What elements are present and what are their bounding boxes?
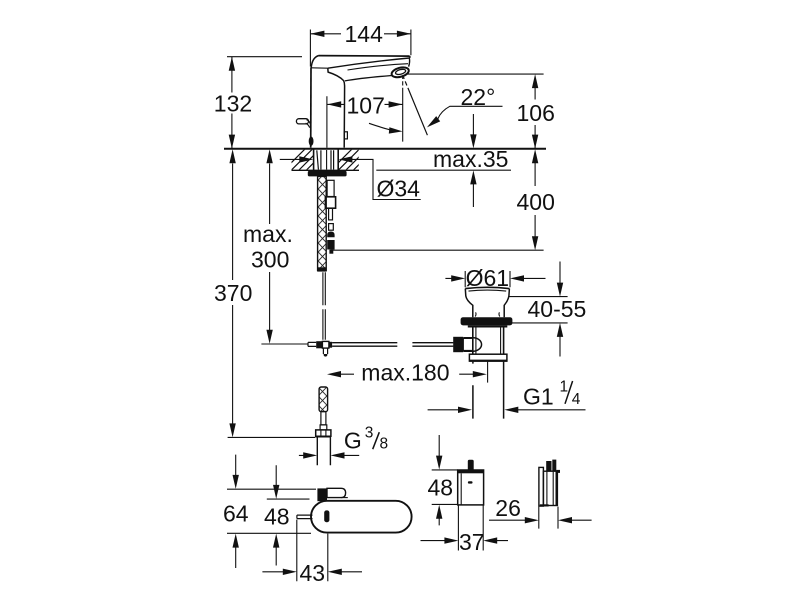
22 degree arc arrow [369, 123, 392, 130]
faucet spout top-left corner [311, 56, 318, 68]
svg-text:400: 400 [517, 189, 555, 215]
front view inner line [460, 473, 462, 505]
tee fitting body [322, 341, 329, 348]
cable below hose [323, 272, 325, 340]
svg-text:Ø61: Ø61 [466, 265, 509, 291]
label 22 degrees [427, 84, 503, 128]
waste gasket [461, 317, 513, 325]
dimension 144 [310, 21, 411, 67]
sensor cable plug tip [329, 250, 333, 254]
tee fitting bottom stub [323, 348, 327, 354]
deck hatching left [284, 149, 328, 170]
supply hose upper braided [318, 176, 327, 270]
svg-text:Ø34: Ø34 [377, 175, 421, 201]
dimension 106 [406, 74, 554, 149]
shank inner lines [317, 150, 334, 169]
dimension 64 [223, 455, 316, 568]
svg-text:1: 1 [560, 379, 569, 396]
waste inlet black block [453, 337, 463, 352]
svg-text:37: 37 [459, 529, 485, 555]
control box side view body [311, 501, 412, 533]
svg-text:4: 4 [572, 391, 581, 408]
control box rear view left panel [539, 467, 544, 506]
22 degree angled line [403, 77, 427, 135]
faucet spout tip line [328, 58, 410, 68]
shank right edge [337, 150, 339, 171]
aerator inner [395, 68, 406, 75]
front view nub [468, 460, 474, 470]
dimension 132 [214, 57, 302, 149]
faucet centerline extension [326, 96, 328, 169]
waste tailpipe [473, 362, 504, 419]
dimension 48 front view [428, 435, 458, 525]
dimension 37 [421, 505, 509, 555]
dimension max.180 [327, 359, 487, 385]
drain rod segment 1 [332, 343, 397, 347]
control box inlet stub [297, 515, 313, 519]
temperature lever neck [306, 120, 311, 128]
svg-text:G: G [344, 427, 362, 453]
waste inlet elbow [463, 338, 481, 352]
lower hose step [320, 425, 327, 430]
G3/8 pipe [317, 437, 330, 465]
control box side view tab white [327, 488, 346, 497]
dimension max.35 [376, 114, 511, 207]
sensor window [344, 132, 347, 139]
drain rod segment 2 [412, 343, 453, 347]
deck underside left [292, 169, 360, 171]
svg-text:max.180: max.180 [361, 359, 449, 385]
waste body [473, 328, 504, 355]
faucet spout underside [345, 76, 392, 81]
sensor cable narrow rod [329, 208, 333, 220]
waste inlet connector [463, 338, 472, 350]
22 degree plumb dashed line [402, 77, 404, 142]
dimension 48 side view [264, 465, 310, 565]
dimension 400 [330, 149, 554, 250]
svg-text:144: 144 [345, 21, 384, 47]
faucet front-top edge [311, 67, 328, 69]
tee fitting left block [316, 341, 322, 348]
deck datum line [224, 148, 546, 150]
dimension diameter 34 [280, 156, 421, 201]
svg-text:48: 48 [428, 475, 454, 501]
faucet spout top edge [319, 55, 410, 58]
sensor cable plug [327, 232, 334, 238]
lower hose neck [321, 412, 326, 425]
faucet spout crease line [348, 64, 409, 70]
pop-up waste flange top [465, 287, 509, 288]
sensor cable stub [329, 224, 334, 231]
svg-text:64: 64 [223, 501, 249, 527]
dimension max.300 [243, 149, 308, 344]
rear view inner lines [547, 471, 553, 505]
faucet body left edge [310, 68, 312, 148]
sensor cable rod [327, 180, 334, 196]
shank left edge [313, 150, 315, 171]
dimension 26 [489, 495, 592, 528]
supply hose end cap [317, 267, 326, 271]
svg-text:43: 43 [300, 560, 326, 586]
aerator outer [391, 66, 410, 79]
rear view connector black [546, 461, 551, 472]
dimension 107 [327, 92, 402, 118]
svg-text:8: 8 [380, 435, 389, 452]
dimension 43 [262, 520, 362, 586]
temperature lever handle [296, 119, 308, 124]
pop-up waste flange sides [465, 289, 473, 318]
svg-text:370: 370 [214, 280, 252, 306]
faucet spout tip end [409, 56, 410, 67]
label G3/8 [299, 425, 388, 459]
svg-text:max.: max. [243, 221, 293, 247]
flange thread relief ticks [475, 312, 500, 316]
svg-text:107: 107 [347, 92, 385, 118]
dimension 40-55 [509, 262, 586, 357]
control box side view tab black [317, 488, 327, 501]
control box front view body [458, 470, 484, 505]
G3/8 nut [316, 430, 331, 436]
tee fitting right block [329, 342, 332, 348]
waste lower nut [469, 354, 507, 361]
dimension diameter 61 [445, 265, 545, 291]
front view lid [458, 470, 484, 473]
label G1 1/4 [428, 379, 586, 414]
svg-text:G1: G1 [523, 383, 554, 409]
svg-text:132: 132 [214, 91, 252, 117]
faucet step and body right edge [328, 68, 345, 147]
front view dash [468, 481, 473, 483]
rear view bottom band [540, 504, 549, 506]
sensor cable block [325, 197, 335, 208]
svg-text:3: 3 [365, 425, 374, 442]
deck hatching right [331, 149, 375, 170]
svg-text:106: 106 [517, 100, 555, 126]
svg-text:48: 48 [264, 504, 290, 530]
rear view main body [543, 471, 557, 505]
svg-text:40-55: 40-55 [528, 296, 587, 322]
temperature lever pivot [309, 137, 314, 146]
svg-text:26: 26 [495, 495, 521, 521]
tee fitting left stub [308, 342, 316, 346]
dimension 370 [214, 149, 315, 437]
mounting nut [308, 171, 347, 177]
svg-text:max.35: max.35 [433, 146, 508, 172]
svg-text:300: 300 [251, 246, 289, 272]
drain centerline [487, 361, 489, 383]
lower hose braided [319, 387, 328, 412]
rear view right edge [556, 471, 558, 505]
control box slot [324, 510, 329, 522]
